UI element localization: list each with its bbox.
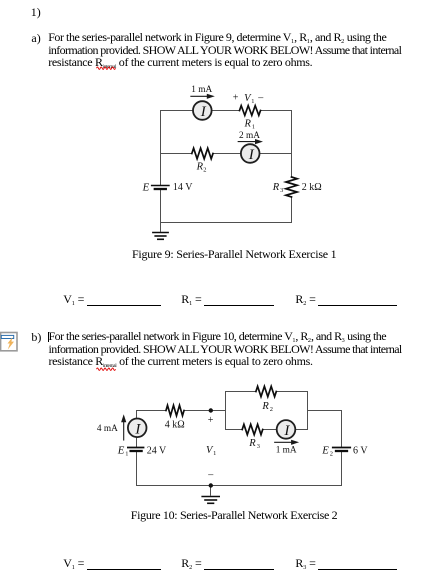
- label E1: [117, 445, 129, 458]
- polarity label minus for V1: [257, 92, 264, 103]
- svg-text:R: R: [248, 438, 256, 449]
- item number 1): [31, 5, 41, 20]
- ammeter I3 (4 mA source branch): [128, 419, 147, 438]
- label R2: [261, 401, 273, 413]
- paragraph a) text: [48, 31, 401, 68]
- answer blank V1 row 1: [63, 292, 161, 307]
- wire fig9 middle row right segment: [260, 153, 292, 155]
- polarity label + for V1: [208, 415, 214, 426]
- resistor R2: [256, 386, 276, 396]
- svg-text:I: I: [283, 423, 290, 439]
- wire fig10 box to right rail: [308, 410, 342, 412]
- wire fig10 left rail ammeter to battery: [136, 437, 138, 447]
- svg-text:E: E: [321, 445, 329, 457]
- wire fig9 top row middle segment: [211, 110, 239, 112]
- svg-text:1: 1: [213, 450, 216, 457]
- svg-text:R: R: [261, 401, 269, 412]
- svg-text:4 mA: 4 mA: [97, 424, 118, 434]
- node A junction dot: [209, 408, 213, 412]
- node label V1: [244, 93, 254, 105]
- svg-text:1 mA: 1 mA: [276, 445, 297, 455]
- wire fig10 right rail lower: [341, 451, 343, 485]
- resistor R3: [286, 177, 297, 197]
- wire fig9 right rail lower: [291, 197, 293, 223]
- svg-text:24 V: 24 V: [147, 446, 167, 457]
- wire fig10 left rail lower: [136, 451, 138, 485]
- svg-text:6 V: 6 V: [353, 446, 368, 457]
- wire fig9 middle row left segment: [161, 153, 192, 155]
- ammeter I4 (1 mA branch): [277, 420, 296, 439]
- svg-text:–: –: [207, 470, 214, 481]
- wire fig10 bottom row: [137, 485, 342, 487]
- answer blank R3 row 2: [295, 556, 397, 571]
- resistor R1: [240, 106, 261, 116]
- wire fig9 left rail lower: [160, 190, 162, 223]
- ammeter I2 (2 mA branch): [241, 144, 260, 163]
- node label V1: [206, 445, 216, 457]
- wire fig10 bottom branch middle segment: [263, 429, 277, 431]
- svg-text:3: 3: [257, 443, 260, 450]
- answer blank R1 row 1: [181, 292, 274, 307]
- svg-text:E: E: [117, 445, 125, 457]
- wire fig10 top branch left segment: [226, 391, 256, 393]
- wire fig10 ground stub: [210, 486, 212, 496]
- value label 4 mA: [97, 424, 118, 434]
- wire fig9 top row left segment: [161, 110, 194, 112]
- wire fig10 bottom branch left segment: [226, 429, 243, 431]
- ammeter I1 (1 mA branch): [193, 101, 212, 120]
- resistor 4 kOhm: [166, 405, 184, 415]
- svg-text:2: 2: [330, 451, 333, 458]
- wire fig10 top row left segment: [137, 410, 167, 412]
- label E: [142, 181, 150, 193]
- label R1: [244, 118, 256, 130]
- wire fig10 top branch right segment: [276, 391, 307, 393]
- svg-text:+: +: [208, 415, 214, 426]
- polarity label minus for V1: [207, 470, 214, 481]
- wire fig9 top row right segment: [261, 110, 292, 112]
- wire fig10 parallel box right edge: [307, 392, 309, 430]
- value label 6 V: [353, 446, 368, 457]
- wire fig9 middle row center segment: [213, 153, 241, 155]
- ground fig10: [202, 497, 219, 504]
- resistor R2: [192, 148, 213, 159]
- text cursor caret: [48, 332, 49, 342]
- svg-text:4 kΩ: 4 kΩ: [165, 419, 185, 430]
- wire fig9 ground stub: [160, 223, 162, 232]
- red spellcheck squiggle b): [96, 366, 118, 372]
- label R3: [248, 438, 260, 450]
- wire fig9 left rail upper: [160, 111, 162, 185]
- paragraph b) label: [31, 330, 41, 345]
- value label 24 V: [147, 446, 167, 457]
- value label 1 mA: [191, 85, 212, 95]
- value label 4 kOhm: [165, 419, 185, 430]
- node B junction dot (ground node): [209, 483, 213, 487]
- wire fig10 bottom branch right segment: [295, 429, 307, 431]
- wire fig10 top row to node A: [184, 410, 226, 412]
- paragraph a) label: [31, 31, 40, 46]
- value label 2 mA: [239, 131, 260, 141]
- current arrow 1 mA: [275, 440, 299, 445]
- label E2: [321, 445, 333, 458]
- wire fig9 bottom row: [161, 222, 292, 224]
- wire fig10 left rail above ammeter: [136, 411, 138, 419]
- resistor R3: [242, 424, 263, 434]
- svg-text:1: 1: [125, 451, 128, 458]
- value label 2 kOhm: [302, 182, 322, 193]
- ground fig9: [153, 233, 168, 240]
- polarity label + for V1: [233, 93, 239, 104]
- value label 14 V: [173, 182, 193, 193]
- answer blank R2 row 1: [295, 292, 397, 307]
- caption figure 10: [131, 508, 338, 523]
- label R3: [272, 182, 284, 194]
- label R2: [196, 162, 207, 174]
- wire fig9 right rail upper: [291, 111, 293, 178]
- wire fig10 parallel box left edge: [225, 392, 227, 430]
- paragraph b) text: [49, 330, 402, 367]
- current arrow 2 mA: [238, 139, 263, 144]
- wire fig10 right rail upper: [341, 411, 343, 448]
- battery E (voltage source): [152, 186, 169, 190]
- current arrow 1 mA: [191, 94, 215, 99]
- value label 1 mA: [276, 445, 297, 455]
- current arrow 4 mA (upward): [121, 414, 126, 440]
- battery E1 (voltage source): [128, 448, 144, 452]
- svg-text:I: I: [134, 421, 141, 437]
- autocorrect lightning icon: [0, 330, 25, 356]
- answer blank R2 row 2: [181, 556, 274, 571]
- caption figure 9: [132, 247, 336, 262]
- answer blank V1 row 2: [63, 556, 161, 571]
- svg-text:2: 2: [270, 406, 273, 413]
- red spellcheck squiggle a): [96, 65, 118, 71]
- battery E2 (voltage source): [333, 448, 350, 452]
